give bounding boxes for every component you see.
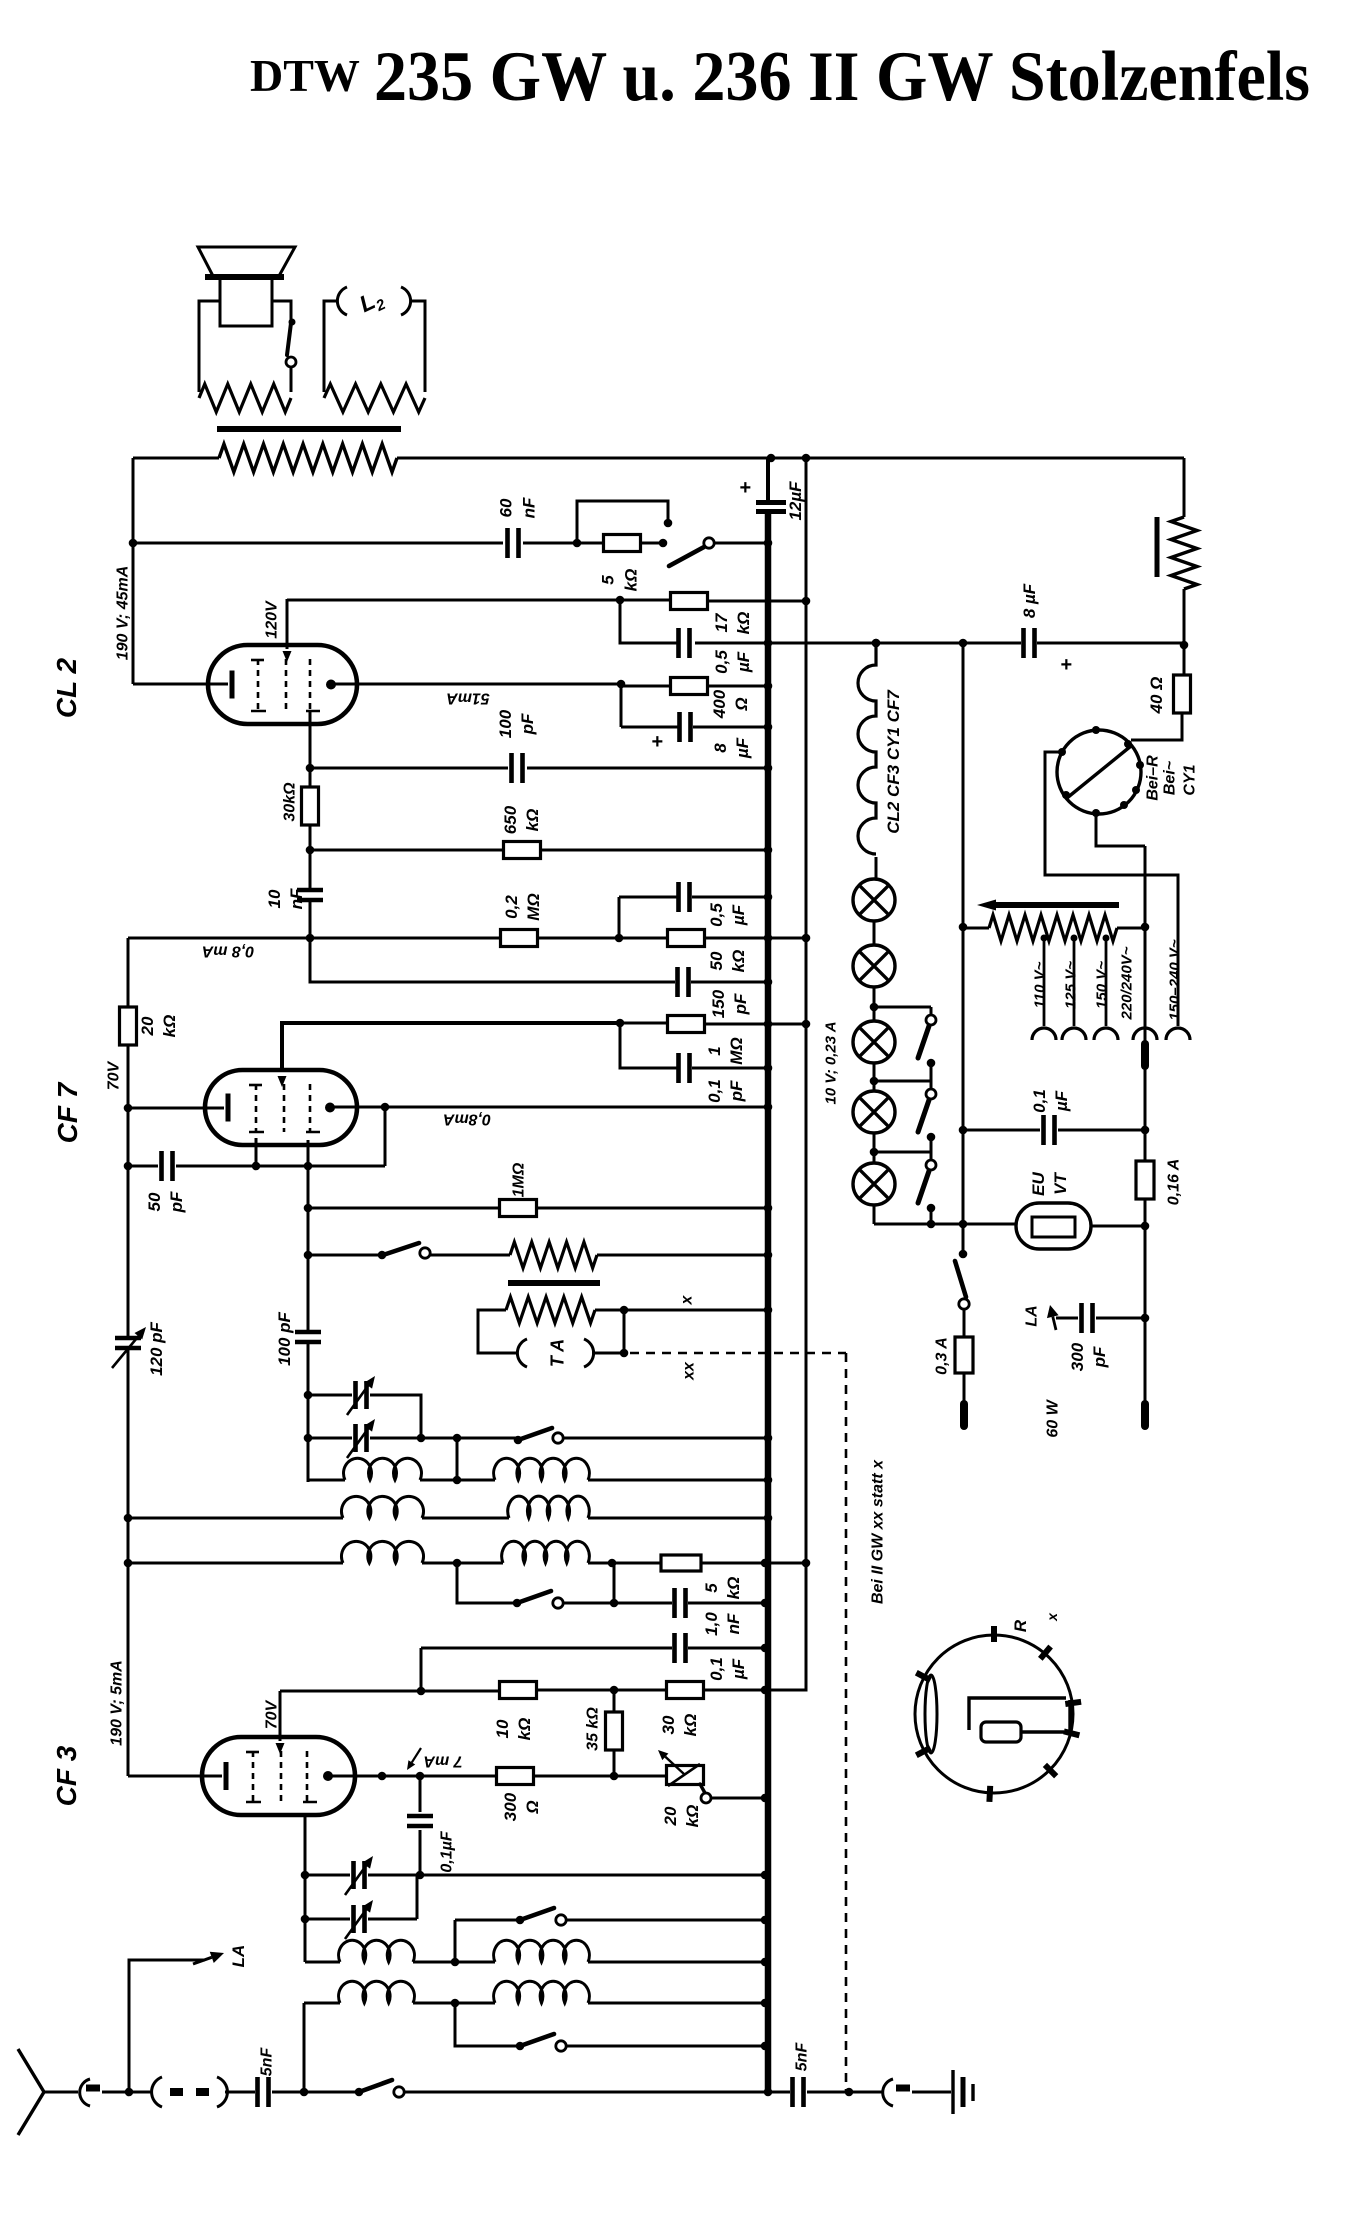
- barretter CY1 circle: [1057, 730, 1141, 814]
- svg-text:10 V; 0,23 A: 10 V; 0,23 A: [822, 1021, 839, 1104]
- wire coil row 1: [308, 1479, 345, 1482]
- svg-text:+: +: [1060, 654, 1072, 676]
- svg-text:VT: VT: [1051, 1172, 1070, 1195]
- label 0.8mA (CF7): [443, 1110, 491, 1127]
- capacitor 0.1uF: [675, 1633, 686, 1663]
- mains switch: [959, 1250, 968, 1259]
- wire: [963, 927, 989, 930]
- svg-text:CF 3: CF 3: [51, 1745, 82, 1806]
- svg-text:nF: nF: [724, 1613, 743, 1634]
- junction: [872, 639, 881, 648]
- wire coil row 2: [128, 1517, 343, 1520]
- coil IF 3a: [341, 1541, 423, 1563]
- wire band switch row: [457, 1563, 517, 1603]
- speaker tap switch: [289, 319, 296, 326]
- svg-text:400: 400: [710, 689, 729, 719]
- junction: [764, 682, 773, 691]
- fuse 0.16A: [1136, 1161, 1154, 1199]
- resistor 1M (anode): [668, 1016, 705, 1033]
- label 70V (CF3): [264, 1699, 281, 1729]
- switch: [514, 1436, 523, 1445]
- junction: [616, 596, 625, 605]
- svg-text:35 kΩ: 35 kΩ: [585, 1707, 602, 1751]
- wire padder row 2: [305, 1918, 350, 1921]
- svg-text:12µF: 12µF: [786, 481, 805, 521]
- wire: [310, 937, 501, 940]
- junction: [659, 539, 668, 548]
- selector tap 125V: [1073, 936, 1076, 1026]
- junction: [764, 1306, 773, 1315]
- wire CL2 cathode: [133, 683, 228, 686]
- wire TA loop: [478, 1310, 516, 1353]
- capacitor 60nF: [508, 528, 519, 558]
- wire: [272, 301, 291, 320]
- wire antenna bus: [404, 2091, 768, 2094]
- wire: [537, 937, 668, 940]
- wire: [588, 1517, 768, 1520]
- wire: [588, 2002, 765, 2005]
- junction: [301, 1871, 310, 1880]
- wire: [272, 2091, 304, 2094]
- wire right rail top: [1183, 458, 1186, 517]
- svg-text:MΩ: MΩ: [524, 893, 543, 920]
- left rail vertical (190V): [132, 458, 135, 684]
- wire: [533, 1775, 667, 1778]
- wire: [692, 1067, 768, 1070]
- junction: [872, 639, 881, 648]
- svg-text:235 GW u. 236 II GW Stolzenfel: 235 GW u. 236 II GW Stolzenfels: [374, 38, 1310, 116]
- label CL2: [51, 657, 82, 718]
- svg-text:kΩ: kΩ: [681, 1714, 700, 1737]
- wire: [873, 987, 876, 1021]
- switch: [516, 2042, 525, 2051]
- svg-text:LA: LA: [1024, 1305, 1041, 1326]
- wire: [370, 1395, 421, 1438]
- svg-text:x: x: [1044, 1612, 1060, 1622]
- junction: [870, 1148, 879, 1157]
- wire: [303, 2003, 306, 2092]
- svg-text:0,8mA: 0,8mA: [443, 1110, 491, 1127]
- socket heater trace: [969, 1698, 1066, 1730]
- junction: [124, 1559, 133, 1568]
- junction: [761, 1644, 770, 1653]
- svg-text:300: 300: [1068, 1342, 1087, 1371]
- wire: [595, 1309, 768, 1312]
- svg-text:150–240 V~: 150–240 V~: [1166, 939, 1183, 1021]
- switch (wave change): [355, 2088, 364, 2097]
- wire: [873, 1205, 876, 1224]
- junction: [802, 1020, 811, 1029]
- wire: [422, 1562, 503, 1565]
- resistor 30k vertical: [302, 787, 319, 825]
- wire 120V screen line: [287, 599, 671, 602]
- resistor 300 Ohm: [497, 1768, 534, 1785]
- svg-text:150 V~: 150 V~: [1093, 961, 1110, 1009]
- wire: [536, 1689, 667, 1692]
- capacitor 0.1pF: [679, 1053, 690, 1083]
- wire padder line 2: [308, 1437, 352, 1440]
- svg-text:kΩ: kΩ: [621, 569, 640, 592]
- wire CF7 anode feed: [282, 1023, 620, 1070]
- svg-text:1,0: 1,0: [702, 1612, 721, 1636]
- wire: [1096, 1317, 1145, 1320]
- wire: [691, 981, 768, 984]
- speaker frame wire: [199, 301, 220, 392]
- svg-text:kΩ: kΩ: [160, 1015, 179, 1038]
- dial lamp 4: [853, 1091, 895, 1133]
- svg-text:CF 7: CF 7: [52, 1081, 83, 1143]
- junction: [252, 1162, 261, 1171]
- label 7mA: [423, 1752, 462, 1769]
- wire: [588, 1479, 768, 1482]
- wire switch line: [308, 1254, 382, 1257]
- wire: [963, 1309, 966, 1338]
- junction: [959, 1220, 968, 1229]
- speaker voice winding: [199, 384, 291, 412]
- junction: [761, 1599, 770, 1608]
- junction: [764, 1204, 773, 1213]
- svg-text:120V: 120V: [264, 600, 281, 639]
- wire CF7 anode out: [334, 1106, 768, 1109]
- label x (socket): [1044, 1612, 1060, 1622]
- svg-text:20: 20: [138, 1016, 157, 1036]
- wire: [714, 542, 768, 545]
- label CF7: [52, 1081, 83, 1143]
- capacitor 100pF (CF7 grid): [295, 1332, 321, 1342]
- dial lamp 1: [853, 879, 895, 921]
- junction: [451, 1958, 460, 1967]
- wire 150pF line: [310, 938, 675, 982]
- svg-text:DTW: DTW: [250, 50, 360, 101]
- svg-text:Ω: Ω: [732, 697, 751, 711]
- antenna: [18, 2049, 44, 2135]
- junction: [764, 2088, 773, 2097]
- junction: [764, 846, 773, 855]
- resistor 0.2M: [501, 930, 538, 947]
- resistor 20k vertical: [120, 1007, 137, 1045]
- junction: [608, 1559, 617, 1568]
- potentiometer 20k: [667, 1766, 704, 1785]
- junction: [764, 934, 773, 943]
- svg-text:CL2 CF3 CY1 CF7: CL2 CF3 CY1 CF7: [884, 689, 903, 834]
- wire: [588, 1562, 661, 1565]
- svg-text:0,3 A: 0,3 A: [934, 1337, 951, 1375]
- selector tap 110V: [1043, 936, 1046, 1026]
- wire: [304, 2091, 359, 2094]
- svg-text:xx: xx: [681, 1361, 698, 1381]
- coil ant 1a: [339, 1940, 415, 1962]
- junction: [764, 1514, 773, 1523]
- label Bei II GW xx statt x: [870, 1459, 887, 1604]
- svg-text:0,5: 0,5: [712, 650, 731, 674]
- tube CL2: [208, 645, 357, 724]
- wire CF3 top feed: [279, 1691, 282, 1741]
- svg-text:5: 5: [702, 1583, 721, 1593]
- wire: [623, 1310, 626, 1353]
- junction: [300, 2088, 309, 2097]
- resistor 1M: [500, 1200, 537, 1217]
- label 220/240V~: [1118, 946, 1135, 1020]
- wire barretter left: [1045, 752, 1178, 1026]
- junction: [301, 1915, 310, 1924]
- wire band switch row (CF3): [455, 1919, 520, 1922]
- wire 650k line: [310, 849, 504, 852]
- wire: [1037, 642, 1184, 645]
- junction: [764, 1064, 773, 1073]
- selector socket arcs: [1032, 1028, 1056, 1040]
- capacitor 300pF: [1082, 1303, 1093, 1333]
- label LA: [229, 1945, 248, 1968]
- svg-text:5nF: 5nF: [794, 2042, 811, 2072]
- capacitor 10nF: [297, 890, 323, 900]
- svg-text:1: 1: [705, 1046, 724, 1055]
- svg-text:7 mA: 7 mA: [423, 1752, 462, 1769]
- wire left rail: [127, 938, 130, 1007]
- svg-text:R: R: [1011, 1619, 1030, 1632]
- junction: [764, 1020, 773, 1029]
- dashed vertical Bei II GW: [845, 1353, 848, 2092]
- svg-text:190 V; 45mA: 190 V; 45mA: [115, 566, 132, 661]
- capacitor 5nF (chassis): [793, 2077, 804, 2107]
- junction: [304, 1162, 313, 1171]
- wire 70V screen line: [280, 1690, 500, 1693]
- wire: [1144, 1199, 1147, 1404]
- wire: [768, 2091, 790, 2094]
- wire 0.1pF line: [620, 1023, 677, 1068]
- svg-text:kΩ: kΩ: [724, 1577, 743, 1600]
- wire: [370, 1437, 518, 1440]
- junction: [615, 934, 624, 943]
- svg-text:µF: µF: [729, 1658, 748, 1680]
- junction: [761, 2042, 770, 2051]
- TA primary zigzag: [506, 1297, 595, 1323]
- wire coil row A: [305, 1961, 340, 1964]
- wire: [701, 1562, 806, 1565]
- wire B+ drop to 30k line: [765, 1563, 806, 1690]
- svg-text:T A: T A: [547, 1339, 567, 1367]
- capacitor 100pF: [512, 753, 523, 783]
- wire: [420, 1479, 495, 1482]
- capacitor 0.5uF (grid): [679, 882, 690, 912]
- svg-text:µF: µF: [733, 737, 752, 759]
- junction: [573, 539, 582, 548]
- wire: [688, 1647, 765, 1650]
- wire coil row 3: [128, 1562, 343, 1565]
- label 150-240V~: [1166, 939, 1183, 1021]
- wire: [430, 1254, 510, 1257]
- lamp shorting switch 1: [874, 1006, 931, 1009]
- coil ant 2a: [339, 1981, 415, 2003]
- wire: [454, 1920, 457, 1962]
- junction: [124, 1104, 133, 1113]
- svg-text:CY1: CY1: [1182, 764, 1199, 795]
- lamp shorting switch 2: [874, 1080, 931, 1083]
- svg-text:150: 150: [709, 989, 728, 1018]
- coil L2 loop wire: [324, 301, 338, 392]
- label 110V~: [1031, 961, 1048, 1008]
- pot wiper to rail: [700, 1784, 705, 1793]
- svg-text:8: 8: [711, 743, 730, 753]
- svg-text:MΩ: MΩ: [727, 1037, 746, 1064]
- wire 50pF line: [128, 1165, 158, 1168]
- junction: [764, 1103, 773, 1112]
- wire: [1183, 589, 1186, 675]
- svg-text:kΩ: kΩ: [683, 1805, 702, 1828]
- trimmer capacitor: [356, 1424, 367, 1452]
- wire band switch row B: [455, 2003, 520, 2046]
- wire: [873, 921, 876, 945]
- junction: [451, 1999, 460, 2008]
- wire: [613, 1563, 616, 1603]
- wire: [588, 1961, 765, 1964]
- mains plug pin left: [960, 1404, 968, 1426]
- svg-text:kΩ: kΩ: [515, 1718, 534, 1741]
- svg-text:pF: pF: [518, 713, 537, 735]
- capacitor 12uF electrolytic: [756, 503, 786, 512]
- junction: [761, 1916, 770, 1925]
- wire: [613, 1690, 616, 1712]
- label xx: [681, 1361, 698, 1381]
- wire: [1058, 1129, 1145, 1132]
- wire 40ohm to barretter: [1131, 713, 1182, 740]
- svg-text:nF: nF: [287, 888, 306, 909]
- L2 winding zigzag: [324, 384, 425, 412]
- dial lamp 3: [853, 1021, 895, 1063]
- svg-text:0,1: 0,1: [707, 1657, 726, 1681]
- svg-text:5: 5: [598, 575, 617, 585]
- wire bypass loop: [577, 501, 668, 543]
- svg-text:CL 2: CL 2: [51, 657, 82, 718]
- junction: [1141, 923, 1150, 932]
- junction: [802, 597, 811, 606]
- coil IF 2a: [341, 1496, 423, 1518]
- tube EU VT (ballast): [1016, 1203, 1091, 1249]
- wire: [807, 2091, 884, 2094]
- junction: [124, 1162, 133, 1171]
- selector tap 150V: [1105, 936, 1108, 1026]
- resistor 650k: [504, 842, 541, 859]
- ground symbol: [951, 2070, 954, 2114]
- wire: [597, 1254, 768, 1257]
- svg-text:650: 650: [501, 805, 520, 834]
- label 70V: [106, 1060, 123, 1090]
- dashed link xx: [630, 1352, 846, 1355]
- trimmer capacitor: [356, 1381, 367, 1409]
- TA connector arcs and label: [517, 1339, 527, 1367]
- svg-text:0,1: 0,1: [705, 1079, 724, 1103]
- mains plug pin right: [1141, 1404, 1149, 1426]
- wire: [695, 642, 1021, 645]
- wire 0.1uF mains line: [963, 1129, 1040, 1132]
- trimmer capacitor: [354, 1905, 365, 1933]
- junction: [304, 1204, 313, 1213]
- wire heater bottom line: [874, 1223, 1016, 1226]
- wire barretter bottom: [1096, 813, 1145, 846]
- junction: [417, 1434, 426, 1443]
- svg-text:pF: pF: [727, 1080, 746, 1102]
- dial lamp 2: [853, 945, 895, 987]
- svg-text:µF: µF: [1052, 1090, 1071, 1112]
- wire: [592, 1352, 624, 1355]
- capacitor 0.1uF (CF3): [419, 1776, 422, 1812]
- junction: [959, 1126, 968, 1135]
- wire: [422, 1517, 509, 1520]
- voltage selector resistor: [989, 915, 1117, 941]
- wire 100pF line: [310, 767, 508, 770]
- capacitor 0.1uF (mains): [1044, 1115, 1055, 1145]
- label 190V 5mA: [109, 1660, 126, 1746]
- junction: [610, 1772, 619, 1781]
- wire: [563, 1437, 768, 1440]
- junction: [124, 1514, 133, 1523]
- voltage selector slider bar: [993, 902, 1119, 908]
- coil IF 3b: [502, 1541, 590, 1563]
- fuse 0.3A: [955, 1337, 973, 1373]
- wire: [225, 2091, 255, 2094]
- wire CF7 bottom lead: [307, 1140, 310, 1330]
- svg-text:190 V; 5mA: 190 V; 5mA: [109, 1660, 126, 1746]
- svg-text:Ω: Ω: [523, 1800, 542, 1814]
- wire 300pF line: [1056, 1317, 1078, 1320]
- junction: [1141, 1126, 1150, 1135]
- wire: [413, 1961, 495, 1964]
- junction: [764, 893, 773, 902]
- junction: [610, 1599, 619, 1608]
- wire coil row B: [304, 2002, 340, 2005]
- switch: [516, 1916, 525, 1925]
- svg-text:EU: EU: [1029, 1171, 1048, 1195]
- wire: [1091, 1225, 1145, 1228]
- svg-text:70V: 70V: [106, 1060, 123, 1090]
- resistor tone zigzag: [510, 1242, 597, 1268]
- wire 0.1uF row: [421, 1647, 672, 1650]
- svg-text:100: 100: [496, 709, 515, 738]
- svg-text:40 Ω: 40 Ω: [1147, 677, 1166, 715]
- junction: [620, 1306, 629, 1315]
- wire: [527, 767, 768, 770]
- junction: [453, 1476, 462, 1485]
- wire 1M line: [308, 1207, 500, 1210]
- wire: [523, 542, 577, 545]
- junction: [959, 923, 968, 932]
- switch: [378, 1251, 387, 1260]
- junction: [416, 1772, 425, 1781]
- junction: [761, 1958, 770, 1967]
- svg-text:300: 300: [501, 1792, 520, 1821]
- junction: [802, 1559, 811, 1568]
- junction: [416, 1871, 425, 1880]
- heater chain CL2 CF3 CY1 CF7: [858, 643, 876, 854]
- junction: [764, 539, 773, 548]
- junction: [1141, 1222, 1150, 1231]
- junction: [767, 454, 776, 463]
- label LA (mains): [1024, 1305, 1041, 1326]
- capacitor 8uF electrolytic: [680, 712, 691, 742]
- resistor 17k: [671, 593, 708, 610]
- wire 0.5uF loop: [618, 897, 621, 938]
- capacitor 0.5uF: [679, 628, 690, 658]
- wire: [368, 1918, 417, 1921]
- wire: [620, 1022, 668, 1025]
- svg-text:110 V~: 110 V~: [1031, 961, 1048, 1008]
- wire left rail lower: [127, 1349, 130, 1776]
- junction: [761, 1871, 770, 1880]
- wire B+ feed line: [620, 600, 677, 643]
- svg-text:Bei–R: Bei–R: [1145, 755, 1162, 801]
- svg-text:0,1µF: 0,1µF: [439, 1830, 456, 1872]
- wire: [692, 896, 768, 899]
- socket resistor box: [981, 1722, 1021, 1742]
